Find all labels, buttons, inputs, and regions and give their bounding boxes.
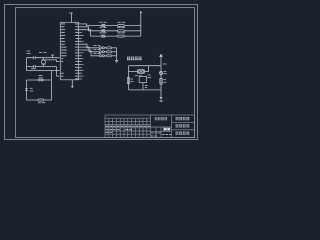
- label R3 300: [118, 32, 126, 34]
- resistor R3: [118, 35, 125, 37]
- wire reset box left edge: [26, 80, 28, 100]
- label 材料标记 (glyph blobs): [155, 117, 167, 120]
- wire U1 gnd stub: [71, 80, 73, 86]
- resistor R1: [118, 25, 125, 27]
- label R4: [131, 79, 134, 82]
- label VCC: [163, 63, 167, 65]
- power arrow gnd (down arrow): [159, 97, 162, 99]
- ground bar: [159, 101, 162, 102]
- label 4MHz: [135, 75, 142, 77]
- label D2: [100, 27, 107, 29]
- wire pin to key row1: [82, 44, 99, 48]
- pin stubs right side of U1: [79, 24, 82, 79]
- wire VCC riser: [160, 57, 162, 66]
- wire IR module top rail: [129, 65, 162, 67]
- resistor R2: [118, 30, 125, 32]
- node label 红外模块 (IR module title, glyph blobs): [127, 57, 142, 61]
- wire pin P1 to LED row1: [82, 24, 102, 26]
- resistor R4 (left branch vertical): [127, 78, 129, 84]
- wire pin P3 to LED row3: [82, 30, 102, 36]
- resistor R6 (right branch vertical): [160, 78, 162, 84]
- capacitor C1 top plate wire (oscillator): [27, 57, 60, 59]
- switch S1 (reset button on box top edge): [27, 79, 52, 81]
- label K3: [94, 53, 101, 55]
- wire reset box bottom edge: [27, 99, 52, 101]
- pin stubs left side of U1: [59, 24, 61, 79]
- IC U1 (MCU AT89C51) body rectangle: [61, 22, 79, 80]
- label under U2: [145, 85, 148, 87]
- title block left grid horizontals: [105, 118, 151, 134]
- label S1: [38, 74, 42, 76]
- wire pin P2 to LED row2: [82, 27, 102, 31]
- label X1 12M: [39, 51, 47, 53]
- wire crystal to top rail: [144, 66, 148, 72]
- label 30p under: [31, 68, 36, 70]
- label K1: [94, 45, 101, 47]
- label Q1: [164, 71, 167, 73]
- LED D2: [102, 29, 118, 32]
- ground symbol U1: [71, 86, 74, 88]
- wire reset to ground run junction: [50, 71, 52, 100]
- resistor R5 (on bottom edge): [38, 99, 44, 101]
- wire K1 to gnd bus: [112, 47, 117, 49]
- resistor R11: [106, 47, 111, 49]
- wire gnd drop below IR: [160, 90, 162, 97]
- wire IR bottom rail: [129, 89, 162, 91]
- label U2: [148, 75, 151, 77]
- key switch K1: [99, 47, 106, 49]
- wire osc row2 to pin: [46, 60, 60, 62]
- label D3: [100, 32, 107, 34]
- wire IR module right branch: [160, 66, 162, 90]
- wire K2 to gnd bus: [112, 51, 117, 53]
- capacitor C1 plates: [34, 56, 36, 59]
- key switch K3: [99, 55, 106, 57]
- wire R3 to VCC bus: [124, 35, 141, 37]
- title block outline: [105, 115, 195, 138]
- label 制图审核 (tiny text dashes): [151, 133, 171, 136]
- label 图样代号 (glyph blobs): [176, 132, 190, 135]
- capacitor C3 (on left edge): [25, 89, 28, 91]
- label R5 8.2K: [38, 102, 46, 104]
- crystal Y1 (IR receiver symbol): [138, 69, 145, 73]
- wire ground run to U1: [27, 70, 60, 72]
- key switch K2: [99, 51, 106, 53]
- label R1 300: [118, 21, 126, 23]
- resistor R12: [106, 51, 111, 53]
- label C3 10u: [30, 88, 33, 91]
- wire IR module left branch: [128, 66, 130, 90]
- ground symbol keys: [115, 61, 118, 63]
- transistor Q1 (photo device circle): [159, 71, 162, 74]
- label 比例 cells (glyph blobs): [164, 128, 170, 131]
- label row cells 标记处数分区 (tiny text dashes): [106, 125, 150, 127]
- wire osc left vertical: [26, 58, 28, 71]
- power symbol VCC left: [51, 55, 54, 58]
- wire pin to key row3: [82, 50, 99, 56]
- wire keys gnd bus: [116, 48, 118, 61]
- capacitor C2 bottom plate wire: [27, 66, 57, 68]
- pin numbers right side of U1: [82, 24, 84, 77]
- wire R2 to VCC bus: [124, 30, 141, 32]
- pin name labels left column inside U1: [61, 24, 67, 77]
- wire U2 to bottom rail: [142, 83, 144, 90]
- wire R1 to VCC bus: [124, 25, 141, 27]
- title block right dividers: [151, 115, 195, 138]
- label 图样名称 (glyph blobs): [176, 124, 190, 127]
- LED D3: [102, 35, 118, 38]
- LED D1: [102, 24, 118, 27]
- label R6 1K: [163, 80, 166, 83]
- VCC bus vertical top right: [140, 13, 142, 36]
- label D1: [100, 21, 107, 23]
- crystal X1: [41, 58, 45, 67]
- power VCC rail to U1 top: [70, 13, 72, 22]
- pin name labels right column inside U1: [75, 24, 78, 80]
- capacitor C2 plates: [34, 65, 36, 68]
- label 单位名称 (glyph blobs): [176, 117, 190, 120]
- IC U2 (small IC box in IR module): [139, 77, 146, 83]
- wire crystal row: [129, 71, 138, 73]
- title block left grid verticals: [109, 115, 151, 138]
- inner drawing frame: [16, 8, 195, 138]
- label 设计 row (tiny text dashes): [106, 129, 132, 132]
- outer sheet border frame: [5, 5, 198, 140]
- wire osc bottom to pin: [57, 67, 60, 77]
- power symbol VCC bar above U1: [69, 12, 73, 14]
- power arrow VCC top right: [140, 11, 142, 13]
- label C1 30p: [27, 51, 31, 53]
- resistor R13: [106, 55, 111, 57]
- wire pin to key row2: [82, 47, 99, 52]
- label R2 300: [118, 27, 126, 29]
- wire K3 to gnd bus: [112, 55, 117, 57]
- label K2: [94, 49, 101, 51]
- power arrow VCC IR: [159, 54, 163, 57]
